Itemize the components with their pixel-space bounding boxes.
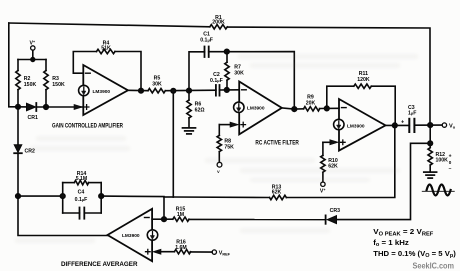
node averager feedback junction <box>16 194 21 199</box>
svg-text:+: + <box>401 120 404 126</box>
resistor R3 <box>45 60 47 71</box>
svg-text:GAIN CONTROLLED AMPLIFIER: GAIN CONTROLLED AMPLIFIER <box>52 124 124 130</box>
node R12 top <box>428 141 433 146</box>
wire op3 feedback <box>327 86 354 108</box>
svg-text:C4: C4 <box>78 190 85 196</box>
wire bus tap down to averager <box>172 91 174 197</box>
capacitor C1 <box>204 47 206 58</box>
wire C3 node down <box>429 125 431 143</box>
svg-text:LM3900: LM3900 <box>93 89 111 95</box>
svg-text:CR3: CR3 <box>330 208 340 214</box>
svg-text:LM3900: LM3900 <box>347 124 365 130</box>
svg-text:0.1µF: 0.1µF <box>75 197 88 203</box>
arrow into op3 + input <box>330 140 339 145</box>
wire mid bus <box>165 89 216 92</box>
svg-text:200K: 200K <box>212 20 225 26</box>
resistor R1 <box>210 25 227 29</box>
diode CR3 <box>327 216 336 224</box>
wire op4 plus input <box>158 251 174 253</box>
wire op2 out <box>282 108 295 109</box>
wire op1 out to R5 <box>128 89 148 91</box>
svg-text:THD = 0.1% (VO = 5 Vp): THD = 0.1% (VO = 5 Vp) <box>373 251 456 259</box>
wire top feedback line with R1 <box>9 23 210 27</box>
ground under R12 <box>424 171 437 173</box>
svg-text:100K: 100K <box>436 158 449 164</box>
terminal VC <box>217 162 222 167</box>
wire R14/C4 box rails <box>62 183 64 213</box>
op-amp U2 LM3900 RC active filter <box>239 82 282 135</box>
node C1/R7 junction <box>225 49 230 54</box>
terminal VREF <box>212 250 216 254</box>
resistor R6 <box>188 91 190 100</box>
svg-text:150K: 150K <box>52 82 65 88</box>
resistor R9 <box>294 108 303 110</box>
svg-text:30K: 30K <box>152 82 162 88</box>
svg-text:0: 0 <box>449 160 452 165</box>
node op3 minus <box>325 106 330 111</box>
wire input bus to op1 <box>18 106 27 108</box>
svg-text:CR1: CR1 <box>28 115 38 121</box>
node C1/R6 junction <box>187 88 192 93</box>
resistor R4 <box>97 49 115 53</box>
wire op4 minus input <box>152 218 164 220</box>
svg-text:R11: R11 <box>359 71 368 77</box>
svg-text:1.6M: 1.6M <box>175 245 187 251</box>
svg-text:SeekIC.com: SeekIC.com <box>413 260 455 270</box>
svg-text:1M: 1M <box>177 212 184 218</box>
wire CR2 branch <box>17 107 19 145</box>
wire box to averager node <box>101 196 164 219</box>
wire left vertical drop <box>9 23 18 107</box>
arrow into op1 + input <box>74 104 83 109</box>
wire C1 branch <box>189 52 205 91</box>
capacitor C3 <box>408 119 410 132</box>
svg-text:V: V <box>217 169 220 174</box>
svg-text:LM3900: LM3900 <box>122 233 140 239</box>
svg-text:30K: 30K <box>234 71 244 77</box>
wire R2 R3 top rail <box>18 59 46 61</box>
svg-text:Vo: Vo <box>449 123 456 129</box>
resistor R7 <box>226 52 228 63</box>
svg-text:V+: V+ <box>320 188 326 195</box>
wire op3 out down to R13 <box>286 125 395 197</box>
wire op3 plus to R10 <box>323 141 331 143</box>
diode CR1 <box>27 103 36 111</box>
wire V+ stem <box>32 50 34 59</box>
svg-text:120K: 120K <box>357 77 370 83</box>
wire op2 plus to R8 <box>219 124 231 126</box>
resistor R13 <box>270 195 287 199</box>
arrow into op2 + input <box>230 122 239 127</box>
svg-text:20K: 20K <box>306 100 316 106</box>
sine wave symbol <box>422 190 454 192</box>
terminal V+ op3 <box>321 182 325 186</box>
svg-text:5.1M: 5.1M <box>76 176 88 182</box>
terminal Vo <box>442 123 446 127</box>
node bus tap <box>171 89 176 94</box>
capacitor C2 <box>215 85 217 96</box>
node op4 minus input <box>162 217 167 222</box>
wire op3 out to C3 <box>386 124 410 126</box>
resistor R12 <box>429 143 431 147</box>
svg-text:DIFFERENCE AVERAGER: DIFFERENCE AVERAGER <box>61 261 138 268</box>
svg-text:V+: V+ <box>30 40 36 47</box>
svg-text:−: − <box>449 166 452 172</box>
node R2 bottom junction <box>16 105 21 110</box>
op-amp U4 LM3900 difference averager <box>108 209 153 261</box>
resistor R16 <box>174 250 190 254</box>
svg-text:VO PEAK = 2 VREF: VO PEAK = 2 VREF <box>373 229 433 237</box>
wire R15 to CR3 <box>189 218 325 220</box>
svg-text:1µF: 1µF <box>408 111 416 117</box>
svg-text:LM3900: LM3900 <box>247 106 265 112</box>
op-amp U3 LM3900 <box>339 99 386 151</box>
resistor R11 <box>354 84 371 88</box>
capacitor C4 <box>63 212 80 214</box>
svg-text:0.1µF: 0.1µF <box>210 78 223 84</box>
node V+ splitter <box>31 46 35 50</box>
svg-text:fo = 1 kHz: fo = 1 kHz <box>373 240 409 248</box>
node op1 output <box>139 88 144 93</box>
ground under R6 <box>183 127 196 129</box>
svg-text:75K: 75K <box>224 145 234 151</box>
resistor R2 <box>17 60 19 71</box>
svg-text:62Ω: 62Ω <box>195 108 205 114</box>
op-amp U1 LM3900 gain controlled amplifier <box>83 65 128 115</box>
scan bleed-through ghost strips <box>238 54 418 59</box>
node op3 output <box>393 123 398 128</box>
wire CR3 to R12 node <box>337 143 430 219</box>
resistor R8 <box>217 135 221 151</box>
resistor R10 <box>321 155 325 172</box>
wire op4 output feedback <box>18 196 108 235</box>
svg-text:150K: 150K <box>24 82 37 88</box>
wire node to R14/C4 box <box>18 195 63 197</box>
resistor R14 <box>63 182 75 184</box>
svg-text:0.1µF: 0.1µF <box>200 38 213 44</box>
arrow into op4 + input <box>153 249 161 254</box>
svg-text:+: + <box>449 154 452 160</box>
diode CR2 <box>14 145 22 153</box>
wire op1 feedback <box>73 52 96 74</box>
svg-text:VREF: VREF <box>219 251 231 257</box>
node R3 bottom junction <box>44 105 49 110</box>
node R7 bottom <box>225 88 230 93</box>
wire to op2 minus <box>227 89 239 91</box>
resistor R5 <box>148 89 165 93</box>
node C3 right <box>428 123 433 128</box>
node op2 output <box>292 107 297 112</box>
svg-text:51K: 51K <box>101 45 111 51</box>
resistor R15 <box>164 218 173 220</box>
svg-text:RC ACTIVE FILTER: RC ACTIVE FILTER <box>255 141 299 147</box>
svg-text:62K: 62K <box>272 190 282 196</box>
